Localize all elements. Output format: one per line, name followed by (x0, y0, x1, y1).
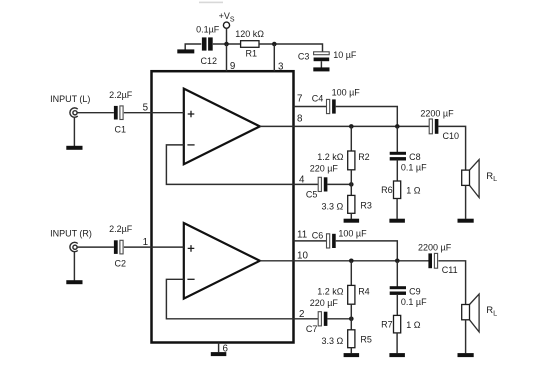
svg-text:1: 1 (143, 237, 148, 248)
node supply-pin9 (224, 42, 229, 47)
ground (C12) (177, 49, 194, 53)
svg-text:1 Ω: 1 Ω (406, 185, 421, 195)
capacitor C6 100uF (312, 229, 367, 249)
svg-text:10: 10 (297, 250, 308, 261)
wire R3 to ground (350, 213, 352, 219)
node R1-pin3 (272, 42, 277, 47)
op-amp A minus input (187, 144, 194, 146)
capacitor C1 2.2uF (109, 90, 133, 135)
wire jack to ground (73, 252, 75, 281)
svg-text:C12: C12 (201, 56, 218, 66)
supply terminal +Vs (219, 11, 235, 28)
wire jack to C2 (77, 246, 114, 248)
ground (R3) (344, 219, 360, 223)
svg-text:2200 µF: 2200 µF (420, 108, 454, 118)
svg-text:1.2 kΩ: 1.2 kΩ (317, 287, 344, 297)
speaker load R_L (R) (462, 294, 497, 332)
ground (input L) (66, 146, 82, 150)
wire C8 to R6 (396, 160, 398, 181)
svg-text:C4: C4 (312, 93, 324, 103)
ground (C3) (313, 67, 329, 71)
svg-text:120 kΩ: 120 kΩ (235, 29, 264, 39)
svg-text:RL: RL (486, 305, 497, 317)
node output-R4 (349, 259, 354, 264)
svg-text:11: 11 (297, 229, 307, 240)
wire pin 6 (219, 343, 229, 355)
capacitor C8 0.1uF (390, 152, 427, 173)
ground (speaker R) (458, 353, 474, 357)
wire C11 to speaker (438, 261, 465, 305)
wire pin 3 (274, 44, 284, 72)
capacitor C3 10uF (298, 50, 357, 62)
input jack (R) (50, 228, 92, 251)
svg-text:RL: RL (486, 171, 497, 183)
svg-text:C7: C7 (306, 324, 318, 334)
op-amp A triangle (184, 89, 260, 165)
svg-text:INPUT (L): INPUT (L) (50, 94, 90, 104)
svg-text:1.2 kΩ: 1.2 kΩ (317, 152, 344, 162)
wire C9 to R7 (396, 294, 398, 315)
svg-text:C6: C6 (312, 230, 324, 240)
svg-text:C11: C11 (442, 265, 458, 275)
capacitor C5 220uF (306, 163, 339, 199)
wire R5 to ground (350, 348, 352, 354)
ground (R6) (389, 219, 405, 223)
wire jack to ground (73, 117, 75, 146)
wire node to C8 (396, 126, 398, 153)
capacitor C12 0.1uF (196, 25, 220, 67)
svg-text:C8: C8 (409, 152, 421, 162)
ground (speaker L) (458, 219, 474, 223)
ground (R5) (344, 353, 360, 357)
svg-text:C1: C1 (115, 124, 127, 134)
node output-R2 (349, 124, 354, 129)
wire node to R2 (350, 126, 352, 151)
wire R6 to ground (396, 199, 398, 219)
svg-text:3.3 Ω: 3.3 Ω (322, 336, 344, 346)
svg-text:0.1 µF: 0.1 µF (401, 163, 427, 173)
wire +Vs to rail (226, 28, 228, 44)
svg-text:R3: R3 (360, 200, 372, 210)
resistor R5 3.3ohm (322, 330, 372, 348)
scan artifact dash (199, 2, 223, 4)
capacitor C4 100uF (312, 88, 361, 114)
capacitor C2 2.2uF (109, 224, 133, 269)
op-amp A plus input (188, 111, 195, 118)
svg-text:C5: C5 (306, 190, 318, 200)
wire pin 8 output (260, 113, 430, 126)
IC U1 outline (152, 71, 294, 342)
op-amp B triangle (184, 223, 260, 299)
capacitor C11 2200uF (418, 242, 458, 274)
svg-text:100 µF: 100 µF (332, 88, 361, 98)
resistor R6 1ohm (381, 181, 421, 199)
svg-text:C10: C10 (443, 131, 460, 141)
wire C4 to output node (336, 107, 398, 127)
wire jack to C1 (77, 112, 114, 114)
wire C5 to node (327, 183, 351, 185)
capacitor C10 2200uF (420, 108, 459, 140)
svg-text:0.1 µF: 0.1 µF (401, 297, 427, 307)
wire R1 to C3 drop (259, 44, 323, 52)
ground (pin 6) (211, 352, 227, 356)
resistor R7 1ohm (381, 315, 421, 333)
svg-text:R4: R4 (358, 287, 370, 297)
wire junction to R3 (350, 184, 352, 195)
wire speaker to ground (465, 185, 467, 219)
wire pin 7 stub (294, 93, 327, 106)
svg-text:2: 2 (299, 309, 304, 320)
wire C10 to speaker (438, 126, 465, 170)
wire pin 10 output (260, 250, 430, 261)
input jack (L) (50, 94, 90, 117)
svg-text:INPUT (R): INPUT (R) (50, 228, 92, 238)
node feedback junction (349, 317, 354, 322)
resistor R4 1.2k (317, 285, 370, 304)
wire R2 to junction (350, 170, 352, 185)
svg-text:C9: C9 (409, 287, 421, 297)
svg-text:220 µF: 220 µF (310, 298, 339, 308)
svg-text:2.2µF: 2.2µF (109, 224, 133, 234)
wire feedback pin 2 (166, 279, 318, 320)
svg-text:100 µF: 100 µF (338, 229, 367, 239)
wire R7 to ground (396, 333, 398, 353)
resistor R2 1.2k (317, 151, 370, 170)
svg-text:R6: R6 (381, 185, 393, 195)
wire R4 to junction (350, 304, 352, 319)
ground (input R) (66, 280, 82, 284)
svg-text:8: 8 (297, 113, 303, 124)
wire node to R4 (350, 261, 352, 286)
wire ground elbow to C12 (185, 44, 201, 50)
wire pin 5 input (124, 103, 184, 114)
svg-text:1 Ω: 1 Ω (406, 320, 421, 330)
svg-text:C3: C3 (298, 52, 310, 62)
svg-text:9: 9 (230, 61, 235, 72)
node output-C9 (395, 259, 400, 264)
wire node to C9 (396, 261, 398, 288)
op-amp B minus input (187, 278, 194, 280)
wire C3 to ground (320, 61, 322, 67)
node feedback junction (349, 182, 354, 187)
wire pin 9 (227, 44, 236, 72)
svg-text:R2: R2 (358, 152, 370, 162)
capacitor C7 220uF (306, 298, 339, 334)
svg-text:R5: R5 (360, 335, 372, 345)
svg-text:0.1µF: 0.1µF (196, 25, 220, 35)
wire feedback pin 4 (166, 145, 318, 186)
svg-text:5: 5 (143, 103, 149, 114)
svg-text:7: 7 (297, 93, 302, 104)
resistor R3 3.3ohm (322, 195, 372, 213)
svg-text:2.2µF: 2.2µF (109, 90, 133, 100)
wire junction to R5 (350, 319, 352, 330)
svg-text:3: 3 (278, 61, 284, 72)
wire C7 to node (327, 318, 351, 320)
svg-text:10 µF: 10 µF (333, 50, 357, 60)
svg-text:2200 µF: 2200 µF (418, 242, 452, 252)
svg-text:R7: R7 (381, 320, 393, 330)
svg-text:220 µF: 220 µF (310, 163, 339, 173)
svg-text:4: 4 (299, 175, 305, 186)
wire C12 to R1 (213, 43, 241, 45)
ground (R7) (389, 353, 405, 357)
svg-text:R1: R1 (246, 49, 258, 59)
speaker load R_L (L) (462, 160, 497, 198)
wire speaker to ground (465, 320, 467, 354)
wire pin 11 stub (294, 229, 327, 241)
svg-text:3.3 Ω: 3.3 Ω (322, 202, 344, 212)
op-amp B plus input (188, 245, 195, 252)
wire pin 1 input (124, 237, 184, 248)
resistor R1 120k (235, 29, 264, 59)
wire C6 to output node (336, 241, 398, 261)
svg-text:C2: C2 (115, 259, 127, 269)
capacitor C9 0.1uF (390, 286, 427, 307)
node output-C8 (395, 124, 400, 129)
